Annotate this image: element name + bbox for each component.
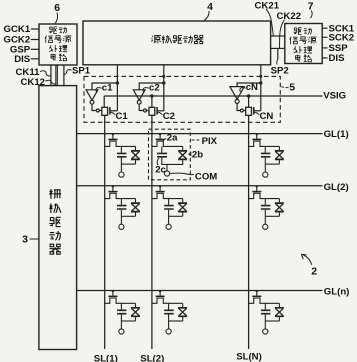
leader: CN label (255, 112, 260, 114)
wire: GCK1 input (31, 28, 39, 30)
wire: SCK1 output (322, 27, 327, 29)
wire: cN inverter input (237, 83, 261, 87)
wire: VSIG drop to QN (248, 96, 250, 107)
wire: c1 inverter input (92, 83, 117, 90)
leader: CK11 (40, 71, 51, 76)
LC cell 2b (crossed box) (178, 151, 187, 160)
wire: c1 output to gate (92, 104, 96, 110)
leader lines and labels (30, 9, 313, 265)
svg-text:cN: cN (246, 82, 258, 93)
leader: CK21 (266, 9, 273, 36)
wire: c2 inverter input (139, 83, 164, 90)
svg-text:c1: c1 (102, 83, 113, 94)
svg-text:GL(n): GL(n) (324, 287, 350, 298)
leader: 2b label with arrow (189, 153, 192, 155)
wire: gate bubble to box (99, 110, 102, 112)
svg-text:C2: C2 (163, 111, 175, 122)
svg-text:c2: c2 (149, 83, 160, 94)
svg-text:4: 4 (207, 1, 213, 13)
block U4 text: 源极驱动器 (151, 35, 203, 43)
leader: cN label (240, 88, 246, 92)
capacitor 2c plates (157, 153, 167, 156)
leader: c2 label (143, 88, 149, 92)
sampling unit 1: driver output line (116, 65, 118, 111)
leader: 2a label (163, 139, 166, 143)
wire: SCK2 output (322, 36, 327, 38)
sampling circuit dashed box 5 (84, 76, 280, 122)
inverter c1 (86, 90, 98, 100)
svg-text:DIS: DIS (329, 53, 346, 64)
svg-text:SL(1): SL(1) (94, 353, 118, 362)
svg-text:5: 5 (289, 82, 295, 94)
capacitor 2c bottom lead (162, 158, 167, 165)
sampling unit 2: driver output line (163, 65, 165, 111)
LC cell 2b bottom lead (167, 160, 183, 164)
inverter cN (230, 87, 244, 100)
node: VSIG to Q2 (150, 94, 153, 97)
leader: CK12 (46, 80, 56, 84)
leader: C2 label (158, 112, 163, 114)
leader: PIX label dashes (192, 139, 202, 141)
pixel cell rowN colN (249, 290, 284, 334)
transistor Q1 (sampling switch) (102, 107, 108, 115)
PIX pixel (row1 col2) (149, 129, 194, 180)
svg-text:CK22: CK22 (277, 11, 302, 22)
transistor QN gate bubble (240, 109, 243, 112)
transistor Q2 gate bubble (144, 109, 147, 112)
transistor QN (sampling switch) (246, 107, 252, 115)
svg-text:2b: 2b (192, 149, 203, 160)
node: cN input branch (259, 81, 262, 84)
svg-text:GL(2): GL(2) (324, 182, 349, 193)
wire: VSIG video signal line (104, 96, 322, 107)
svg-text:PIX: PIX (202, 136, 218, 147)
inverter c2 (133, 90, 145, 100)
gate line GL(1) (77, 133, 323, 135)
transistor Q2 (sampling switch) (149, 107, 155, 115)
leader: 6 to block6 (55, 13, 57, 24)
svg-text:SP2: SP2 (271, 66, 289, 77)
node: c2 input branch (162, 81, 165, 84)
leader: 2c label (157, 158, 159, 165)
wire: C1 to driver line (110, 110, 118, 112)
source line SL(N) (248, 115, 250, 349)
svg-text:6: 6 (54, 2, 60, 14)
svg-text:7: 7 (308, 1, 314, 13)
svg-text:GL(1): GL(1) (324, 129, 349, 140)
svg-text:COM: COM (195, 171, 217, 182)
source line SL(1) (104, 115, 106, 349)
wire: CK11 line block6 to gate driver (50, 65, 52, 86)
label 2 arrow (303, 255, 312, 265)
svg-text:GCK1: GCK1 (4, 24, 31, 35)
block U3 text: 栅极驱动器 (vertical) (49, 189, 61, 254)
leader: SP2 (277, 60, 278, 65)
transistor 2a channel (152, 141, 183, 146)
wire: CN to driver line (254, 110, 261, 112)
svg-text:SCK2: SCK2 (329, 33, 355, 44)
leader: 5 to dashed box (282, 87, 289, 88)
leader: 7 to block7 (310, 11, 312, 19)
svg-text:SL(N): SL(N) (236, 351, 262, 362)
svg-text:CK12: CK12 (20, 77, 45, 88)
leader: SP1 (64, 70, 72, 75)
transistor Q1 gate bubble (96, 109, 99, 112)
wire: SP1 line block6 to gate driver (63, 65, 65, 86)
node: c2 dashed-edge junction (162, 75, 165, 78)
svg-text:2a: 2a (167, 132, 178, 143)
svg-text:2: 2 (311, 266, 317, 278)
wire: VSIG drop to Q2 (151, 96, 153, 107)
svg-text:SL(2): SL(2) (140, 353, 164, 362)
wire: SSP output (322, 47, 327, 49)
gate line GL(n) (77, 290, 323, 292)
sampling unit N: driver output line (260, 65, 262, 111)
wire: CK22 connection between source driver and block7 (271, 47, 285, 49)
leader: 3 to gate driver (30, 238, 39, 240)
leader: c1 label (96, 88, 102, 92)
capacitor 2c lead (161, 146, 163, 152)
leader: CK22 (280, 20, 285, 49)
gate line GL(2) (77, 185, 323, 187)
capacitor CN bar (253, 107, 255, 115)
pixel cell row2 colN (249, 185, 284, 229)
block U6 text: 驱动信号源处理电路 (45, 27, 72, 61)
wire: c2 output to gate (139, 104, 143, 110)
pixel cell rowN col1 (105, 290, 140, 334)
capacitor C1 bar (109, 107, 111, 115)
wire: DIS input (left) (31, 58, 39, 60)
svg-text:CK21: CK21 (255, 0, 280, 11)
svg-text:2c: 2c (155, 165, 166, 176)
node: cN dashed-edge junction (259, 75, 262, 78)
block U6: drive signal source processing circuit (left) (39, 24, 77, 65)
wire: GCK2 input (31, 39, 39, 41)
COM terminal lead (166, 164, 168, 171)
block U3: gate driver (39, 86, 77, 350)
wire: gate bubble to box (243, 110, 245, 112)
wire: DIS output (right) (322, 57, 327, 59)
svg-text:CN: CN (260, 111, 274, 122)
svg-text:DIS: DIS (14, 54, 31, 65)
pixel cell row1 col1 (105, 133, 140, 177)
capacitor C2 bar (156, 107, 158, 115)
node: c1 input branch (116, 81, 119, 84)
block U7 text: 驱动信号源处理电路 (290, 28, 317, 62)
leader: C1 label (111, 112, 116, 114)
wire: cN output to gate (237, 103, 240, 110)
wire: SP2 stub line (277, 48, 279, 59)
pixel cell row2 col2 (152, 185, 187, 229)
svg-text:VSIG: VSIG (323, 91, 346, 102)
COM terminal circle (164, 171, 169, 176)
wire: CK21 connection between source driver and block7 (271, 35, 285, 37)
wire: CK12 line block6 to gate driver (55, 65, 57, 86)
leader: 4 to source driver (204, 11, 209, 21)
pixel cell row2 col1 (105, 185, 140, 229)
transistor 2a gate stub (159, 134, 161, 139)
source line SL(2) (151, 115, 153, 349)
LC cell 2b top lead (182, 146, 184, 150)
svg-text:SP1: SP1 (72, 65, 91, 76)
block U4: source driver (83, 21, 271, 65)
wire: C2 to driver line (157, 110, 164, 112)
svg-text:3: 3 (22, 234, 28, 246)
PIX dashed outline (149, 129, 191, 180)
pixel cell rowN col2 (152, 290, 187, 334)
svg-text:C1: C1 (116, 111, 129, 122)
block U7: drive signal source processing circuit (right) (285, 24, 322, 64)
wire: GSP input (31, 48, 39, 50)
wire: third line block6 to gate driver (56, 65, 58, 86)
pixel cell row1 colN (249, 133, 284, 177)
transistor 2a gate bar (156, 138, 165, 140)
wire: gate bubble to box (147, 110, 150, 112)
node: VSIG to QN (247, 94, 250, 97)
wire: COM terminal to COM label (170, 173, 194, 174)
